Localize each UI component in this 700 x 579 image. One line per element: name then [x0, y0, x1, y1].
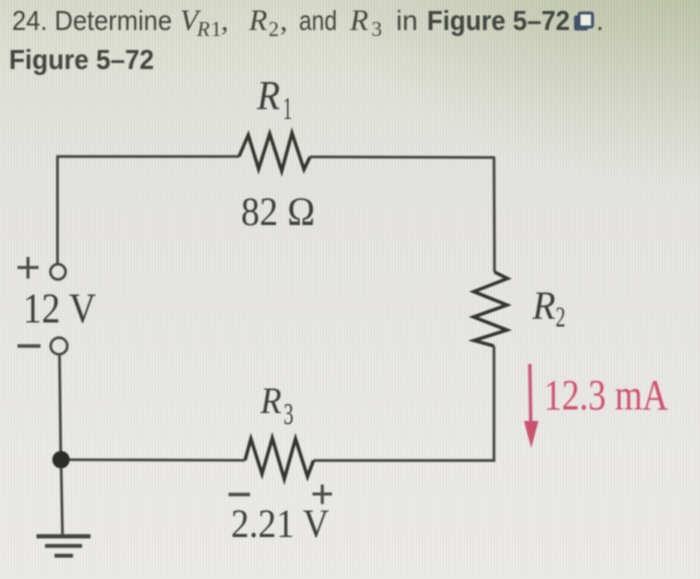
label minus sign source — [18, 344, 41, 347]
wire source minus to node — [60, 356, 61, 460]
label minus sign R3 — [229, 493, 251, 496]
resistor R3 — [245, 438, 314, 479]
current arrow 12.3 mA — [524, 364, 539, 448]
figure link icon — [574, 13, 593, 31]
svg-text:and: and — [299, 5, 337, 36]
node junction dot — [52, 451, 69, 468]
label plus sign source — [18, 257, 39, 279]
svg-text:R: R — [349, 4, 368, 37]
title line 1 — [12, 4, 604, 41]
svg-text:2: 2 — [269, 17, 280, 41]
svg-text:82 Ω: 82 Ω — [241, 189, 315, 234]
svg-text:12.3 mA: 12.3 mA — [544, 373, 668, 420]
resistor R2 — [474, 272, 508, 346]
ground — [37, 534, 91, 557]
svg-text:24. Determine: 24. Determine — [12, 5, 172, 36]
wire bottom right of R3 — [314, 459, 496, 462]
svg-text:2: 2 — [556, 303, 566, 334]
svg-text:,: , — [221, 4, 229, 37]
svg-text:R: R — [256, 72, 280, 118]
svg-text:R: R — [248, 4, 267, 37]
wire right vertical upper — [493, 157, 496, 273]
svg-text:R: R — [260, 381, 282, 422]
label R1 — [256, 72, 292, 126]
terminal circle plus — [50, 264, 65, 279]
wire right vertical lower — [493, 346, 496, 461]
svg-text:2.21 V: 2.21 V — [231, 501, 329, 546]
svg-text:,: , — [280, 4, 288, 37]
label R3 — [260, 381, 294, 431]
svg-text:Figure 5–72: Figure 5–72 — [427, 5, 570, 36]
resistor R1 — [239, 133, 310, 171]
wire top-left vertical — [56, 157, 59, 265]
wire bottom left of R3 — [61, 458, 245, 461]
wire top horizontal left of R1 — [56, 155, 239, 158]
svg-text:3: 3 — [372, 17, 383, 41]
label plus sign R3 — [313, 485, 333, 505]
wire ground stem — [61, 460, 63, 535]
svg-text:1: 1 — [211, 17, 222, 41]
terminal circle minus — [51, 338, 68, 355]
svg-text:3: 3 — [284, 396, 294, 431]
label R2 — [532, 283, 566, 334]
svg-text:12 V: 12 V — [23, 287, 96, 333]
svg-text:1: 1 — [283, 90, 292, 126]
svg-text:R: R — [532, 283, 556, 328]
svg-text:in: in — [396, 5, 418, 36]
wire top horizontal right of R1 — [310, 156, 494, 159]
svg-text:R: R — [196, 17, 210, 41]
svg-text:.: . — [596, 5, 604, 36]
svg-text:Figure 5–72: Figure 5–72 — [9, 44, 154, 75]
